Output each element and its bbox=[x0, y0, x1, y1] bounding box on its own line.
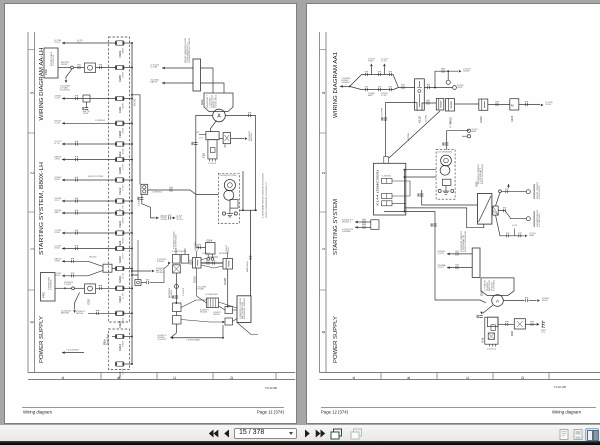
ring terminal bbox=[453, 86, 457, 90]
connector bbox=[389, 73, 391, 76]
svg-text:X124K2: X124K2 bbox=[202, 253, 211, 255]
svg-text:0.5GX12: 0.5GX12 bbox=[158, 339, 168, 341]
svg-text:TX13109B: TX13109B bbox=[265, 386, 278, 390]
relay K206 bbox=[85, 284, 96, 294]
connector bbox=[76, 97, 78, 100]
svg-text:Page 11 (374): Page 11 (374) bbox=[257, 410, 285, 415]
svg-text:1.5R: 1.5R bbox=[55, 98, 61, 100]
junction bbox=[131, 274, 133, 276]
starter M01 dashed box bbox=[218, 174, 239, 224]
wire jack down branch bbox=[142, 194, 156, 218]
connector bbox=[379, 73, 381, 76]
ring terminal bbox=[467, 135, 470, 138]
svg-text:0.5G: 0.5G bbox=[122, 184, 124, 190]
resistor R02 bbox=[514, 319, 525, 329]
wire bbox=[73, 67, 84, 69]
junction bbox=[349, 85, 351, 87]
connector bbox=[496, 103, 498, 106]
svg-text:FM05: FM05 bbox=[118, 75, 122, 82]
wire fuse to bus bbox=[124, 98, 132, 100]
svg-text:0.75: 0.75 bbox=[122, 367, 124, 374]
svg-text:0.75: 0.75 bbox=[122, 292, 124, 299]
svg-text:FM12: FM12 bbox=[118, 187, 122, 194]
wire feed row FM02 bbox=[62, 42, 116, 44]
svg-text:A: A bbox=[351, 376, 356, 379]
svg-text:0.75: 0.75 bbox=[512, 225, 518, 227]
wire branch up bbox=[435, 71, 458, 87]
svg-text:2.5Y24VW204: 2.5Y24VW204 bbox=[176, 234, 178, 249]
svg-text:C: C bbox=[172, 376, 177, 379]
svg-text:0.5GX: 0.5GX bbox=[438, 253, 445, 255]
wire G01A down bbox=[197, 268, 207, 303]
wire starter ground bus bbox=[404, 170, 406, 212]
connector bbox=[140, 197, 143, 199]
ground stud G14 bbox=[196, 247, 206, 249]
svg-text:0.5G: 0.5G bbox=[122, 317, 124, 323]
splice bbox=[499, 190, 502, 193]
fuse FM03 bbox=[116, 142, 124, 146]
wire SCV merge bbox=[88, 261, 103, 266]
wire bbox=[96, 287, 116, 289]
connector bbox=[76, 178, 78, 181]
starter M01 dashed box bbox=[436, 150, 455, 200]
svg-text:2.5Y24VW20: 2.5Y24VW20 bbox=[66, 350, 80, 352]
connector bbox=[199, 246, 201, 249]
wire to U05 bbox=[422, 190, 478, 205]
connector bbox=[78, 66, 80, 69]
wire X241 b bbox=[355, 226, 371, 228]
wire stub bbox=[112, 336, 116, 338]
arrow terminal bbox=[355, 226, 358, 229]
junction bbox=[131, 287, 133, 289]
connector bbox=[76, 231, 78, 234]
connector X241 bbox=[371, 220, 379, 230]
connector bbox=[207, 261, 209, 264]
svg-text:0.5GX124: 0.5GX124 bbox=[53, 54, 55, 66]
fuse FM02 bbox=[116, 41, 124, 45]
svg-text:K2062.5: K2062.5 bbox=[138, 196, 140, 206]
fusible link bbox=[173, 265, 181, 273]
svg-text:B+7x2: B+7x2 bbox=[133, 98, 136, 106]
svg-text:24VW: 24VW bbox=[122, 217, 124, 223]
arrow bbox=[480, 312, 483, 315]
alternator G02 circle bbox=[213, 109, 226, 122]
svg-text:W20: W20 bbox=[458, 87, 464, 89]
svg-text:X124K206: X124K206 bbox=[60, 90, 71, 92]
wire B+ drop A bbox=[242, 171, 244, 210]
toolbar bbox=[0, 424, 600, 441]
connector bbox=[456, 252, 458, 255]
svg-text:X215: X215 bbox=[510, 115, 514, 122]
left page (Page 11) bbox=[4, 3, 297, 424]
switch box S1 bbox=[173, 303, 182, 312]
svg-text:X124: X124 bbox=[546, 104, 553, 106]
svg-text:K2062.5Y24VW: K2062.5Y24VW bbox=[88, 176, 103, 178]
fuse box B80X dashed outline bbox=[108, 37, 129, 322]
svg-text:1.5RX302BATTW2040.75BK2062.5Y2: 1.5RX302BATTW2040.75BK2062.5Y24VW204 bbox=[262, 172, 265, 218]
svg-text:A: A bbox=[496, 299, 500, 304]
wire diag a bbox=[219, 302, 238, 308]
arrow terminal down bbox=[65, 80, 68, 83]
svg-text:K206: K206 bbox=[55, 232, 61, 234]
wire battery feed entry bbox=[340, 85, 350, 87]
svg-text:1.5RX: 1.5RX bbox=[64, 284, 72, 286]
svg-text:A: A bbox=[217, 114, 221, 120]
svg-text:24VW: 24VW bbox=[83, 113, 88, 115]
wire batt40 plus bbox=[496, 193, 501, 206]
wire alternator B+ bbox=[225, 116, 255, 211]
fuse FM06 bbox=[116, 157, 124, 161]
svg-text:0.75B: 0.75B bbox=[450, 120, 452, 128]
wire W204 a bbox=[447, 253, 472, 255]
connector bbox=[420, 194, 423, 196]
ground bbox=[227, 211, 233, 217]
svg-text:1.5RX302: 1.5RX302 bbox=[494, 279, 496, 291]
wire box b to battery bbox=[233, 319, 238, 322]
connector X3 jack bbox=[141, 184, 148, 194]
junction bbox=[131, 212, 133, 214]
svg-text:BATT: BATT bbox=[55, 211, 61, 214]
svg-text:FM08: FM08 bbox=[118, 130, 122, 137]
svg-text:0.75: 0.75 bbox=[55, 143, 62, 145]
connector bbox=[97, 312, 99, 315]
wire battery chain bbox=[175, 273, 177, 303]
svg-text:Wiring diagram: Wiring diagram bbox=[23, 410, 53, 415]
alternator G02 body bbox=[204, 93, 233, 112]
svg-text:Fuse Box: Fuse Box bbox=[106, 333, 110, 345]
page number field bbox=[234, 428, 297, 439]
connector bbox=[147, 281, 149, 284]
svg-text:24VW2040.75BK: 24VW2040.75BK bbox=[220, 175, 238, 177]
wire bbox=[96, 67, 116, 69]
svg-text:24VW2040.75BK206: 24VW2040.75BK206 bbox=[244, 297, 246, 319]
svg-text:BATTW2: BATTW2 bbox=[61, 311, 70, 314]
arrow terminal chassis bbox=[171, 336, 174, 339]
svg-text:STARTING SYSTEM: STARTING SYSTEM bbox=[333, 199, 339, 255]
ring terminal bbox=[526, 190, 530, 194]
first page button bbox=[207, 428, 219, 439]
svg-text:2: 2 bbox=[29, 171, 34, 174]
arrow terminal FM03 bbox=[62, 143, 65, 146]
wire bbox=[501, 191, 526, 193]
svg-text:X302BATTW2040.75BK20: X302BATTW2040.75BK20 bbox=[188, 37, 191, 63]
svg-text:24VW2: 24VW2 bbox=[61, 64, 68, 66]
junction bbox=[131, 336, 133, 338]
wire K16 pins bottom bbox=[210, 159, 216, 162]
junction small box a bbox=[225, 307, 233, 314]
bottom dark strip bbox=[0, 441, 600, 445]
arrow terminal FM06 bbox=[62, 158, 65, 161]
svg-text:0.75BK2062: 0.75BK2062 bbox=[205, 294, 219, 296]
arrow terminal FM08 bbox=[62, 122, 65, 125]
battery main box bbox=[237, 296, 251, 323]
junction bbox=[64, 287, 66, 289]
svg-text:WIRING DIAGRAM AA1: WIRING DIAGRAM AA1 bbox=[333, 52, 339, 118]
wire bbox=[162, 82, 193, 84]
svg-text:3: 3 bbox=[29, 91, 34, 94]
connector bbox=[76, 211, 78, 214]
wire K18 to R02 bbox=[499, 323, 515, 325]
fuse FM16 bbox=[116, 246, 124, 250]
connector bbox=[526, 299, 528, 302]
splice bbox=[72, 287, 75, 290]
svg-text:K2062.5Y24VW2040: K2062.5Y24VW2040 bbox=[482, 163, 484, 184]
arrow terminal bbox=[73, 310, 76, 313]
fuse FM24 bbox=[116, 231, 124, 235]
svg-text:G030: G030 bbox=[479, 116, 483, 123]
connector bbox=[402, 86, 404, 89]
svg-text:2.5Y24VW: 2.5Y24VW bbox=[382, 108, 384, 118]
svg-text:W204: W204 bbox=[542, 300, 548, 302]
stub bar bbox=[513, 229, 515, 236]
wire X215 out bbox=[519, 104, 540, 106]
svg-text:K2062.5Y24VW2040.75BK2062.5Y: K2062.5Y24VW2040.75BK2062.5Y bbox=[266, 181, 268, 218]
connector bbox=[363, 226, 365, 229]
svg-text:FM19: FM19 bbox=[118, 276, 122, 283]
arrow terminal bbox=[355, 221, 358, 224]
wire to K110 bbox=[398, 87, 414, 89]
svg-text:PRC: PRC bbox=[42, 292, 46, 298]
svg-text:2.5Y24VW20: 2.5Y24VW20 bbox=[539, 212, 541, 227]
junction bbox=[250, 256, 252, 258]
fuse FM21 bbox=[116, 211, 124, 215]
svg-text:G02: G02 bbox=[200, 99, 204, 105]
relay K16 bbox=[206, 132, 219, 140]
svg-text:FM06: FM06 bbox=[118, 167, 122, 174]
arrow terminal FM11 bbox=[62, 97, 65, 100]
arrow terminal 2 bbox=[173, 217, 176, 220]
frame bottom band bbox=[320, 373, 600, 380]
wire K110 to batteries bbox=[422, 103, 436, 110]
fuse FM10 bbox=[116, 286, 124, 290]
svg-text:X208: X208 bbox=[88, 299, 91, 305]
wire D+ bbox=[211, 121, 217, 132]
splice ring bbox=[174, 284, 178, 288]
svg-text:0.7: 0.7 bbox=[199, 138, 204, 140]
switch box S2 bbox=[173, 316, 182, 325]
fuse FM20 bbox=[116, 311, 124, 315]
wire X241 a bbox=[355, 221, 371, 223]
connector bbox=[445, 143, 448, 145]
svg-text:K110: K110 bbox=[418, 116, 422, 123]
svg-text:X302BAT: X302BAT bbox=[342, 230, 352, 233]
wire feed row FM08 bbox=[62, 122, 116, 124]
svg-text:1.5R: 1.5R bbox=[381, 95, 387, 97]
fuse FM17 bbox=[116, 199, 124, 203]
wire batteries right bbox=[455, 103, 479, 105]
wire to alternator 2 bbox=[201, 83, 225, 93]
wire alternator B- bbox=[196, 116, 213, 248]
svg-text:2.5Y24VW2040: 2.5Y24VW2040 bbox=[437, 152, 453, 154]
svg-text:24VW2: 24VW2 bbox=[219, 253, 227, 255]
svg-text:1.5RX302BAT: 1.5RX302BAT bbox=[186, 339, 201, 342]
connector bbox=[76, 158, 78, 161]
wire bbox=[124, 287, 132, 289]
wire feed row FM03 bbox=[62, 143, 116, 145]
svg-text:1.5RX302: 1.5RX302 bbox=[152, 192, 163, 194]
svg-text:FM15: FM15 bbox=[118, 371, 122, 378]
junction bbox=[131, 159, 133, 161]
wire U05 return bbox=[405, 208, 484, 228]
wire X144 bottom to G02 bbox=[384, 212, 486, 303]
svg-text:W2040: W2040 bbox=[200, 312, 208, 314]
wire feed row FM06 bbox=[62, 159, 116, 161]
wire bus jog bbox=[132, 95, 140, 185]
svg-text:2.5Y2: 2.5Y2 bbox=[438, 267, 445, 269]
wire K110 to X144 bbox=[386, 103, 418, 157]
svg-text:X144 (GMC900): X144 (GMC900) bbox=[376, 170, 380, 206]
arrow terminal bbox=[245, 137, 248, 140]
wire batt diag 2 bbox=[201, 265, 223, 268]
connector bbox=[433, 224, 436, 226]
fuse FM15 bbox=[116, 362, 124, 366]
junction bbox=[447, 70, 449, 72]
connector bbox=[366, 88, 368, 91]
svg-text:W2040.7: W2040.7 bbox=[342, 82, 352, 84]
svg-text:BATT: BATT bbox=[121, 47, 124, 54]
connector inside 3 bbox=[382, 201, 393, 206]
alternator circle bbox=[492, 295, 504, 307]
ground starter bbox=[229, 208, 231, 211]
wire starter feed bbox=[148, 190, 219, 195]
svg-text:FM11: FM11 bbox=[118, 106, 122, 113]
facing pages view icon (selected) bbox=[585, 428, 599, 442]
wire batt40 minus bbox=[498, 211, 526, 219]
wire fuse to bus bbox=[124, 159, 132, 161]
connector bbox=[100, 66, 102, 69]
arrow terminal bbox=[447, 253, 450, 256]
continuous view icon bbox=[573, 429, 583, 440]
wire batteries link bbox=[201, 262, 223, 264]
arrow terminal bbox=[541, 104, 544, 107]
wire bbox=[124, 312, 132, 314]
svg-text:1: 1 bbox=[29, 247, 34, 250]
wire B+ bus bbox=[131, 43, 133, 364]
svg-text:M: M bbox=[511, 104, 514, 108]
resistor R01 bbox=[223, 133, 231, 144]
connector K2 bbox=[83, 95, 90, 102]
wire box a to battery bbox=[233, 309, 238, 311]
wire fuse to bus bbox=[124, 232, 132, 234]
connector X1 engine interface bbox=[193, 59, 201, 91]
rotate icon enabled bbox=[330, 428, 343, 440]
svg-text:W2040.7: W2040.7 bbox=[342, 222, 352, 224]
svg-text:PRC: PRC bbox=[44, 69, 48, 75]
wire SCV row 2 bbox=[62, 275, 88, 277]
svg-text:B: B bbox=[406, 376, 411, 379]
connector bbox=[194, 143, 197, 145]
svg-text:BATTW: BATTW bbox=[151, 80, 158, 83]
connector bbox=[366, 73, 368, 76]
svg-text:0.5GX124K2: 0.5GX124K2 bbox=[539, 184, 541, 199]
ground bbox=[443, 189, 449, 195]
relay K1 bbox=[85, 63, 96, 73]
wire bbox=[55, 287, 64, 289]
svg-text:0: 0 bbox=[321, 330, 326, 333]
wire feed row FM11 bbox=[62, 98, 116, 100]
connector batt link bbox=[190, 261, 192, 264]
connector W204 bbox=[472, 248, 480, 277]
relay K110 bbox=[415, 79, 425, 110]
ECU PRC 2 bbox=[41, 273, 56, 302]
svg-text:W204: W204 bbox=[122, 237, 124, 244]
svg-text:D: D bbox=[520, 376, 525, 379]
svg-text:BATTW2: BATTW2 bbox=[407, 132, 410, 141]
wire jumper loop bbox=[392, 181, 410, 196]
svg-text:1: 1 bbox=[321, 247, 326, 250]
arrow terminal FM02 bbox=[62, 42, 65, 45]
junction bbox=[250, 258, 252, 260]
frame left band bbox=[320, 32, 327, 373]
connector bbox=[519, 234, 521, 237]
connector bbox=[507, 234, 509, 237]
wire PRC out bbox=[58, 67, 71, 69]
wire R02 to ground bbox=[525, 323, 536, 325]
svg-text:3: 3 bbox=[321, 91, 326, 94]
junction bbox=[131, 67, 133, 69]
connector bbox=[379, 88, 381, 91]
connector bbox=[531, 323, 533, 326]
wire fuse to bus bbox=[124, 248, 132, 250]
connector bbox=[384, 118, 387, 120]
junction box X144 bbox=[374, 163, 406, 215]
svg-text:0.75: 0.75 bbox=[122, 204, 124, 211]
wire W204 b bbox=[447, 267, 472, 269]
svg-text:FM16: FM16 bbox=[118, 256, 122, 263]
wire SCV row 1 bbox=[62, 260, 88, 262]
arrow terminal entry bbox=[340, 85, 343, 88]
wire fan upper bbox=[350, 75, 399, 88]
fuse FM08 bbox=[116, 121, 124, 125]
junction bbox=[131, 270, 133, 272]
connector bbox=[504, 209, 506, 212]
svg-text:POWER SUPPLY: POWER SUPPLY bbox=[39, 316, 45, 363]
rotate icon disabled bbox=[350, 428, 363, 440]
fuse FM12 bbox=[116, 178, 124, 182]
svg-text:X302: X302 bbox=[122, 71, 124, 78]
wire bbox=[124, 268, 132, 270]
alternator G02 body bbox=[481, 278, 514, 296]
junction bbox=[131, 122, 133, 124]
wire fuse to bus bbox=[124, 122, 132, 124]
svg-text:R01: R01 bbox=[224, 142, 227, 147]
arrow bbox=[537, 323, 540, 326]
wire diagonal battery to X144 bbox=[389, 111, 440, 158]
wire diag b bbox=[219, 306, 226, 310]
connector bbox=[442, 70, 444, 73]
footer rule bbox=[22, 407, 284, 409]
svg-text:24VW20: 24VW20 bbox=[156, 272, 165, 274]
svg-text:X302: X302 bbox=[368, 61, 375, 63]
wire bbox=[162, 67, 193, 69]
wire feed row FM17 bbox=[62, 200, 116, 202]
svg-text:R02: R02 bbox=[510, 331, 514, 336]
connector inside 1 bbox=[382, 178, 393, 183]
wire jog bottom bbox=[239, 209, 257, 211]
footer rule bbox=[321, 407, 596, 409]
wire bbox=[141, 282, 146, 284]
wire to bottom bbox=[171, 324, 177, 338]
arrow terminal bbox=[152, 270, 155, 273]
svg-text:W2040.: W2040. bbox=[89, 257, 97, 259]
svg-text:Page 12 (374): Page 12 (374) bbox=[321, 410, 349, 415]
wire drop bbox=[86, 102, 88, 108]
arrow terminal FM16 bbox=[62, 247, 65, 250]
arrow terminal bbox=[447, 266, 450, 269]
wire bottom chassis bbox=[171, 337, 224, 339]
svg-text:D: D bbox=[229, 376, 234, 379]
ring terminal bbox=[446, 80, 450, 84]
